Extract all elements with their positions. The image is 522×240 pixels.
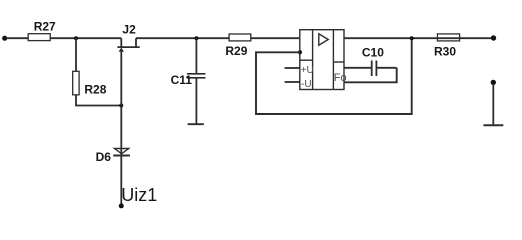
capacitor C11 [171,73,206,87]
wire R29 to op-amp input [251,37,300,39]
wire op-amp output [344,37,492,39]
transistor J2 [117,23,139,52]
svg-text:Uiz1: Uiz1 [121,185,157,205]
svg-text:R30: R30 [434,45,456,59]
svg-text:C11: C11 [171,73,193,87]
node junction R28 tap [74,36,78,40]
wire C10 loop right side [344,68,397,83]
wire C1 to bottom bar [195,78,197,124]
wire junction to R28 [75,38,77,71]
node junction feedback/output [410,36,414,40]
svg-text:+U: +U [301,65,314,76]
wire R28 bottom to gate line [76,95,121,106]
svg-text:C10: C10 [362,46,384,60]
pin -U stub [285,81,300,83]
svg-text:D6: D6 [96,150,112,164]
svg-text:-U: -U [301,79,312,90]
wire R27 to J2 source [50,37,121,39]
pin +U stub [285,67,300,69]
capacitor C10 [344,46,397,76]
wire gate down to D6 and terminal [120,49,122,205]
terminal Uiz1 [119,185,158,209]
wire feedback loop [256,38,412,114]
output terminal right [491,35,496,40]
terminal lower right [491,80,496,85]
ground bar lower right [484,124,504,126]
svg-text:R28: R28 [84,83,106,97]
resistor R27 [28,19,56,40]
svg-text:J2: J2 [122,23,136,37]
svg-text:R29: R29 [225,44,247,58]
op-amp U1 [300,30,347,90]
node feedback pin [298,50,302,54]
svg-text:R27: R27 [34,19,56,33]
ground bar under C1 [188,123,204,125]
resistor R28 [73,71,107,96]
wire junction to C1 [195,38,197,73]
node junction C1 tap [194,36,198,40]
input terminal left [2,36,7,41]
diode D6 [96,149,130,164]
wire J2 drain to R29 [136,37,229,39]
resistor R29 [225,34,250,58]
wire input to R27 [6,37,28,39]
resistor R30 [434,34,460,59]
node junction gate line [119,104,123,108]
wire lower right terminal to bar [492,84,494,124]
